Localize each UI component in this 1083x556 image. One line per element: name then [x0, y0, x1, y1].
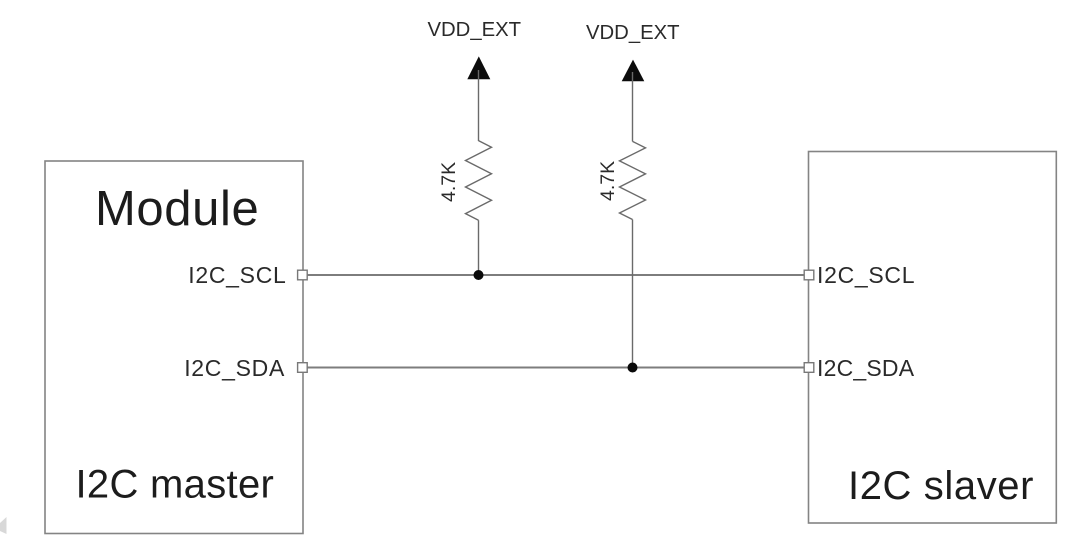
svg-text:I2C_SDA: I2C_SDA	[184, 355, 285, 381]
junction dot on I2C_SCL at R1	[474, 270, 484, 280]
wire net I2C_SDA	[303, 367, 809, 369]
resistor R2 4.7K pull-up on I2C_SDA	[620, 72, 646, 368]
wire net I2C_SCL	[303, 274, 809, 276]
pin I2C_SDA on U1	[298, 363, 308, 373]
svg-text:I2C_SCL: I2C_SCL	[188, 262, 286, 288]
power symbol VDD_EXT #1 (arrow)	[467, 56, 490, 79]
junction dot on I2C_SDA at R2	[628, 363, 638, 373]
pin I2C_SCL on U2	[804, 270, 814, 280]
power symbol VDD_EXT #2 (arrow)	[622, 60, 645, 82]
svg-text:I2C_SDA: I2C_SDA	[817, 355, 915, 381]
svg-text:I2C_SCL: I2C_SCL	[817, 262, 915, 288]
resistor R1 4.7K pull-up on I2C_SCL	[466, 70, 492, 275]
svg-text:4.7K: 4.7K	[438, 162, 460, 202]
pin I2C_SDA on U2	[804, 363, 814, 373]
svg-text:I2C slaver: I2C slaver	[848, 464, 1034, 508]
svg-text:I2C master: I2C master	[76, 463, 275, 507]
svg-text:VDD_EXT: VDD_EXT	[586, 22, 680, 44]
pin I2C_SCL on U1	[298, 270, 308, 280]
svg-text:Module: Module	[95, 182, 259, 236]
svg-text:VDD_EXT: VDD_EXT	[428, 19, 522, 41]
slave box U2 (I2C slaver)	[809, 152, 1057, 524]
svg-text:4.7K: 4.7K	[597, 161, 619, 201]
module box U1 (I2C master)	[45, 161, 303, 534]
